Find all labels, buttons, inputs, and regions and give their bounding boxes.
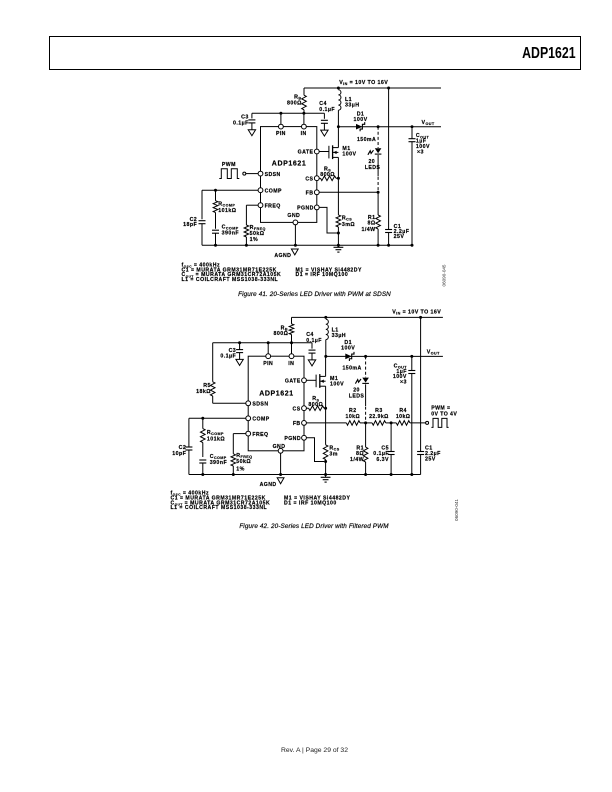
svg-text:FB: FB (306, 191, 314, 197)
pin IN (42) (288, 354, 294, 367)
value label M1 100V (342, 146, 356, 158)
value label L1 33µH (345, 97, 359, 109)
svg-text:×3: ×3 (400, 380, 407, 386)
wire PWM to SDSN (246, 173, 258, 175)
svg-text:AGND: AGND (274, 253, 291, 259)
svg-text:ADP1621: ADP1621 (272, 161, 307, 168)
value label C4 0.1µF (319, 101, 335, 113)
resistor RCOMP (213, 190, 218, 229)
label 150mA (42) (343, 365, 362, 371)
value label RS 800Ω (42) (308, 396, 323, 408)
svg-text:VIN = 10V TO 16V: VIN = 10V TO 16V (339, 80, 388, 86)
label AGND (274, 253, 291, 259)
value label D1 100V (42) (341, 340, 355, 352)
node R1 rail junction (42) (364, 473, 367, 476)
node L1/M1/D1 junction (337, 125, 340, 128)
op-amp U1 ADP1621 IC body (261, 127, 317, 223)
node VOUT/LED junction (42) (364, 355, 367, 358)
label 20 LEDS (365, 159, 381, 171)
svg-text:AGND: AGND (260, 482, 277, 488)
wire M1 drain (42) (325, 356, 327, 376)
svg-text:150mA: 150mA (343, 365, 362, 371)
value label L1 33µH (42) (332, 327, 346, 339)
svg-text:PGND: PGND (284, 436, 301, 442)
wire R5 to SDSN (213, 402, 246, 404)
ground PGND earth symbol (334, 245, 344, 252)
svg-text:22.9kΩ: 22.9kΩ (369, 414, 389, 420)
resistor RS (42) (306, 406, 324, 411)
capacitor C3 (42) (236, 343, 243, 360)
node C2 rail junction (214, 244, 217, 247)
svg-text:10kΩ: 10kΩ (396, 414, 411, 420)
node C1 rail junction (387, 244, 390, 247)
svg-text:GATE: GATE (298, 150, 314, 156)
node IN stub junction (42) (290, 341, 293, 344)
svg-text:10kΩ: 10kΩ (346, 414, 361, 420)
wire IN stub (42) (291, 343, 293, 354)
wire AGND bottom rail (42) (189, 474, 421, 476)
transistor M1 (42) (306, 374, 325, 388)
wire FREQ net (246, 205, 258, 225)
LED string diode symbol (42) (362, 378, 369, 384)
wire VOUT line (42) (326, 355, 443, 357)
label 150mA (357, 137, 376, 143)
svg-text:101kΩ: 101kΩ (207, 436, 225, 442)
wire M1 source (337, 157, 339, 178)
value label C1 2.2µF 25V (42) (425, 445, 441, 462)
svg-text:33µH: 33µH (332, 333, 346, 339)
svg-text:D1 = IRF 10MQ100: D1 = IRF 10MQ100 (284, 500, 337, 506)
resistor R5 (210, 343, 215, 404)
svg-text:GATE: GATE (285, 379, 301, 385)
svg-text:1%: 1% (236, 466, 245, 472)
svg-text:6.3V: 6.3V (376, 457, 389, 463)
value label M1 100V (42) (330, 376, 344, 388)
value label RB 800Ω (42) (274, 325, 289, 337)
pin FB (306, 190, 320, 197)
value label C2 18pF (183, 217, 197, 228)
capacitor C2 (199, 190, 206, 245)
note COUT = MURATA GRM31CR72A105K (182, 272, 282, 278)
svg-text:20: 20 (368, 159, 375, 165)
wire M1 drain (337, 127, 339, 148)
resistor RCOMP (42) (201, 418, 206, 457)
svg-text:PIN: PIN (263, 361, 273, 367)
value label C5 0.1µF 6.3V (42) (373, 445, 389, 462)
resistor RB (302, 88, 307, 113)
footer Rev. A | Page 29 of 32 (0, 747, 612, 754)
wire CS node down (42) (325, 408, 327, 445)
svg-text:50kΩ: 50kΩ (236, 459, 251, 465)
svg-text:0.1µF: 0.1µF (306, 338, 322, 344)
svg-text:8Ω: 8Ω (367, 221, 375, 227)
node FB/LED/R2 junction (42) (364, 421, 367, 424)
value label RS 800Ω (320, 166, 335, 178)
svg-text:RCS: RCS (342, 216, 352, 222)
resistor RCS (336, 215, 341, 233)
resistor RFREQ (42) (231, 454, 236, 475)
wire LED string dashed upper (42) (365, 356, 367, 377)
value label COUT 1µF 100V x3 (42) (393, 363, 407, 385)
svg-text:25V: 25V (425, 456, 436, 462)
wire RCS to rail (337, 233, 339, 245)
op-amp U2 ADP1621 IC body (42) (248, 356, 304, 451)
node COMP/RCOMP junction (42) (201, 417, 204, 420)
node PIN stub junction (42) (267, 341, 270, 344)
value label C2 10pF (42) (172, 445, 186, 457)
node RCS rail junction (42) (324, 473, 327, 476)
svg-text:1/4W: 1/4W (350, 457, 364, 463)
wire R5-C3-PIN-IN-C4 node line (42) (213, 342, 312, 344)
wire FB net (319, 191, 378, 193)
svg-text:0.1µF: 0.1µF (233, 121, 249, 127)
svg-text:SDSN: SDSN (252, 402, 268, 408)
pin FREQ (42) (246, 431, 269, 438)
net label VOUT (42) (427, 349, 440, 355)
node VOUT/LED junction (377, 125, 380, 128)
wire VOUT line (338, 126, 441, 128)
svg-text:VOUT: VOUT (422, 120, 435, 126)
value label RCS 3mΩ (342, 216, 355, 229)
capacitor C3 (248, 113, 255, 129)
svg-text:101kΩ: 101kΩ (218, 208, 236, 214)
pin SDSN (42) (246, 401, 269, 408)
note L1 = COILCRAFT MSS1038-333NL (182, 277, 279, 283)
svg-text:VOUT: VOUT (427, 349, 440, 355)
ground AGND arrow (42) (277, 478, 284, 484)
value label RCS 3m (42) (329, 445, 339, 457)
label 20 LEDS (42) (349, 388, 365, 400)
resistor R4 label (396, 408, 411, 420)
pin FB (42) (293, 421, 307, 428)
note D1 = IRF 10MQ100 (296, 272, 349, 278)
figure code 06090-041 (454, 499, 459, 521)
net label VIN = 10V TO 16V (339, 80, 388, 86)
value label RFREQ 50kΩ 1% (250, 225, 266, 243)
wire PIN stub (280, 113, 282, 124)
terminal PWM input circle (243, 172, 246, 175)
capacitor C4 (42) (309, 343, 316, 360)
wire IN stub (303, 113, 305, 124)
capacitor COUT (42) (408, 356, 415, 474)
svg-text:100V: 100V (341, 345, 355, 351)
resistor R2 label (346, 408, 361, 420)
pin CS (42) (293, 406, 307, 413)
svg-text:390nF: 390nF (210, 460, 228, 466)
LED string diode symbol (375, 148, 382, 154)
svg-text:GND: GND (287, 213, 300, 219)
node C5 rail junction (42) (390, 473, 393, 476)
svg-text:CCOMP: CCOMP (210, 454, 227, 460)
resistor RCS (42) (323, 445, 328, 462)
svg-text:D1 = IRF 10MQ100: D1 = IRF 10MQ100 (296, 272, 349, 278)
header part number ADP1621 (423, 45, 576, 63)
svg-text:100V: 100V (330, 382, 344, 388)
note M1 = VISHAY Si4482DY (296, 267, 363, 273)
svg-text:390nF: 390nF (222, 231, 240, 237)
svg-text:800Ω: 800Ω (274, 331, 289, 337)
ground AGND arrow (291, 249, 298, 255)
svg-text:0.1µF: 0.1µF (319, 107, 335, 113)
PWM square wave symbol (42) (431, 418, 448, 427)
pin PIN (276, 124, 286, 137)
ground PGND earth symbol (42) (321, 475, 331, 483)
svg-text:100V: 100V (342, 152, 356, 158)
node R3/C5 junction (42) (390, 421, 393, 424)
figure code 06090-045 (442, 264, 447, 286)
note fOSC = 400kHz (Fig 41) (182, 262, 221, 268)
pin GND (287, 213, 300, 225)
wire PIN stub (42) (267, 343, 269, 354)
capacitor C5 (42) (388, 423, 395, 475)
label PWM input (222, 162, 236, 168)
wire PGND routing (319, 207, 337, 233)
node VIN/L1 junction (337, 87, 340, 90)
value label C3 0.1µF (233, 115, 249, 127)
svg-text:1%: 1% (250, 237, 259, 243)
svg-text:FB: FB (293, 421, 301, 427)
node PIN stub junction (279, 112, 282, 115)
svg-text:25V: 25V (394, 234, 405, 240)
value label C4 0.1µF (42) (306, 332, 322, 344)
IC name label ADP1621 (42) (259, 391, 294, 398)
svg-text:Figure 42. 20-Series LED Drive: Figure 42. 20-Series LED Driver with Fil… (239, 523, 389, 530)
svg-text:COMP: COMP (265, 188, 282, 194)
wire M1 source (42) (325, 386, 327, 408)
LED dimming squiggle symbol (42) (355, 379, 361, 384)
node COUT rail junction (411, 244, 414, 247)
svg-text:VIN = 10V TO 16V: VIN = 10V TO 16V (392, 310, 441, 316)
capacitor C1 (385, 88, 392, 245)
node RCS/PGND junction (337, 232, 340, 235)
node COUT rail junction (42) (410, 473, 413, 476)
node RS/M1 source junction (337, 177, 340, 180)
wire LED string dashed upper (377, 127, 379, 148)
node C2 rail junction (42) (201, 473, 204, 476)
resistor R3 label (369, 408, 389, 420)
svg-text:ADP1621: ADP1621 (259, 391, 294, 398)
svg-text:18pF: 18pF (183, 222, 197, 228)
node RFREQ rail junction (42) (232, 473, 235, 476)
node VOUT/COUT junction (42) (410, 355, 413, 358)
pin GND (42) (273, 444, 286, 453)
svg-text:SDSN: SDSN (265, 172, 281, 178)
caption Figure 42 (239, 523, 389, 530)
pin CS (305, 176, 319, 183)
net label VOUT (422, 120, 435, 126)
wire FREQ net (42) (233, 434, 246, 454)
capacitor C4 (321, 113, 328, 130)
ground C3 (248, 130, 255, 136)
svg-text:IN: IN (288, 361, 294, 367)
svg-text:3m: 3m (329, 452, 338, 458)
diode D1 (42) (345, 352, 354, 361)
pin COMP (258, 188, 282, 195)
net label VIN = 10V TO 16V (42) (392, 310, 441, 316)
wire CS node down (337, 178, 339, 215)
capacitor COUT (409, 127, 416, 246)
node RS/M1 source junction (42) (324, 407, 327, 410)
svg-text:COMP: COMP (252, 417, 269, 423)
terminal PWM circle (42) (426, 421, 429, 424)
node RFREQ rail junction (245, 244, 248, 247)
svg-text:0.1µF: 0.1µF (220, 354, 236, 360)
node RCS/PGND junction (42) (324, 460, 327, 463)
note fOSC = 400kHz (Fig 42) (171, 490, 210, 496)
note L1 = COILCRAFT MSS1038-333NL (42) (171, 505, 268, 511)
wire VIN rail (Figure 41) (304, 87, 441, 89)
note M1 = VISHAY Si4482DY (42) (284, 495, 351, 501)
value label RFREQ 50kΩ 1% (42) (236, 453, 252, 472)
node L1/M1/D1 junction (42) (324, 355, 327, 358)
caption Figure 41 (238, 291, 391, 298)
value label R1 8Ω 1/4W (42) (350, 445, 364, 463)
wire GND pin to rail (294, 225, 296, 245)
ground C4 (321, 130, 328, 136)
node GND rail junction (294, 244, 297, 247)
svg-text:1/4W: 1/4W (361, 227, 375, 233)
pin COMP (42) (246, 416, 270, 423)
wire LED string lower (42) (365, 384, 367, 423)
resistor RS (319, 176, 337, 181)
svg-text:Figure 41. 20-Series LED Drive: Figure 41. 20-Series LED Driver with PWM… (238, 291, 391, 298)
wire C3-PIN-IN-C4 node line (252, 112, 325, 114)
label AGND (42) (260, 482, 277, 488)
svg-text:CS: CS (305, 176, 313, 182)
value label CCOMP 390nF (42) (210, 454, 228, 466)
svg-text:CS: CS (293, 406, 301, 412)
capacitor CCOMP (212, 230, 219, 245)
node COMP/RCOMP junction (214, 189, 217, 192)
svg-text:PIN: PIN (276, 131, 286, 137)
svg-text:GND: GND (273, 444, 286, 450)
wire PGND routing (42) (306, 438, 324, 462)
svg-text:100V: 100V (353, 117, 367, 123)
resistor R1 (376, 192, 381, 245)
svg-text:FREQ: FREQ (265, 203, 281, 209)
pin FREQ (258, 203, 281, 210)
resistor RB (42) (289, 317, 294, 342)
node RCS rail junction (337, 244, 340, 247)
inductor L1 (42) (326, 319, 329, 356)
value label R5 18kΩ (196, 383, 211, 395)
svg-text:L1 = COILCRAFT MSS1038-333NL: L1 = COILCRAFT MSS1038-333NL (171, 505, 268, 511)
pin SDSN (258, 171, 281, 178)
node VIN/L1 junction (42) (324, 316, 327, 319)
value label C3 0.1µF (42) (220, 348, 236, 360)
svg-text:PGND: PGND (297, 206, 314, 212)
svg-text:RCOMP: RCOMP (207, 430, 224, 436)
header box (49, 36, 582, 70)
svg-text:800Ω: 800Ω (308, 402, 323, 408)
wire FB to PWM net (42) (306, 421, 425, 426)
value label R1 8Ω 1/4W (361, 215, 375, 233)
wire AGND bottom rail (202, 244, 412, 246)
svg-text:FREQ: FREQ (252, 432, 268, 438)
resistor RFREQ (244, 225, 249, 245)
svg-text:3mΩ: 3mΩ (342, 222, 355, 228)
ground C4 (42) (308, 360, 315, 366)
capacitor C2 (42) (185, 418, 192, 474)
node C3 junction (42) (238, 341, 241, 344)
note COUT = MURATA GRM31CR72A105K (42) (171, 500, 271, 506)
node IN stub junction (302, 112, 305, 115)
node R1 rail junction (377, 244, 380, 247)
svg-text:R5: R5 (203, 383, 211, 389)
value label RCOMP 101kΩ (218, 202, 236, 214)
value label C1 2.2µF 25V (394, 224, 410, 240)
node GND rail junction (42) (279, 473, 282, 476)
wire GND pin to rail (42) (280, 453, 282, 474)
svg-text:33µH: 33µH (345, 103, 359, 109)
node FB/LED junction (377, 191, 380, 194)
svg-text:LEDS: LEDS (349, 393, 365, 399)
svg-text:800Ω: 800Ω (287, 100, 302, 106)
LED dimming squiggle symbol (368, 150, 374, 155)
svg-text:800Ω: 800Ω (320, 172, 335, 178)
ground C3 (42) (236, 359, 243, 365)
note C1 = MURATA GRM31MR71E225K (182, 267, 277, 273)
wire COMP net (202, 189, 258, 191)
capacitor CCOMP (42) (199, 460, 206, 475)
pin GATE (42) (285, 378, 307, 385)
note D1 = IRF 10MQ100 (42) (284, 500, 337, 506)
wire COMP net (42) (189, 417, 246, 419)
wire RCS to rail (42) (325, 462, 327, 475)
diode D1 (356, 122, 365, 131)
PWM square wave symbol (219, 169, 239, 179)
svg-text:150mA: 150mA (357, 137, 376, 143)
svg-text:RCS: RCS (329, 445, 339, 451)
value label RCOMP 101kΩ (42) (207, 430, 225, 442)
value label RB 800Ω (287, 95, 302, 107)
pin PGND (42) (284, 435, 306, 442)
inductor L1 (338, 90, 341, 127)
value label COUT 1µF 100V x3 (416, 133, 430, 155)
pin GATE (298, 149, 320, 156)
IC name label ADP1621 (272, 161, 307, 168)
svg-text:RCOMP: RCOMP (218, 202, 235, 208)
label PWM = 0V TO 4V (42) (431, 406, 457, 418)
svg-text:L1 = COILCRAFT MSS1038-333NL: L1 = COILCRAFT MSS1038-333NL (182, 277, 279, 283)
pin IN (301, 124, 307, 137)
transistor M1 (319, 145, 338, 159)
wire VIN rail (Figure 42) (292, 316, 443, 318)
pin PIN (42) (263, 354, 273, 367)
resistor R1 (42) (363, 423, 368, 475)
svg-text:0V TO 4V: 0V TO 4V (431, 411, 457, 417)
pin PGND (297, 205, 319, 212)
svg-text:10pF: 10pF (172, 451, 186, 457)
value label CCOMP 390nF (222, 225, 240, 237)
node VIN/C1 junction (387, 87, 390, 90)
value label D1 100V (353, 112, 367, 123)
svg-text:×3: ×3 (417, 149, 424, 155)
capacitor C1 (42) (417, 317, 424, 474)
node VIN/C1 junction (42) (419, 316, 422, 319)
node VOUT/COUT junction (411, 125, 414, 128)
svg-text:PWM: PWM (222, 162, 236, 168)
svg-text:06090-045: 06090-045 (442, 264, 447, 286)
svg-text:18kΩ: 18kΩ (196, 389, 211, 395)
svg-text:IN: IN (301, 131, 307, 137)
note C1 = MURATA GRM31MR71E225K (42) (171, 495, 266, 501)
svg-text:8Ω: 8Ω (356, 451, 364, 457)
svg-text:06090-041: 06090-041 (454, 499, 459, 521)
wire LED string lower (377, 155, 379, 192)
